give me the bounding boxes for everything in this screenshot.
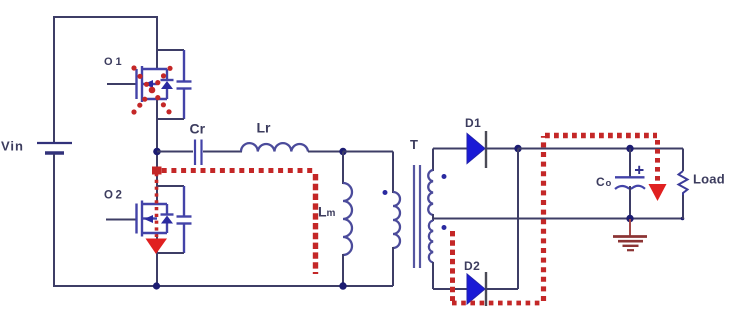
Q2 mid stub <box>141 217 157 219</box>
wire mid node to Q2 drain <box>156 151 158 205</box>
wire mid node to Cr <box>157 151 193 153</box>
wire Co top lead <box>629 149 631 178</box>
Q2 source stub <box>141 232 167 234</box>
wire bottom rail <box>53 285 393 287</box>
battery Vin <box>37 143 72 153</box>
node mid half-bridge <box>153 148 161 156</box>
Co top plate <box>615 176 645 178</box>
Co curved plate <box>615 186 645 189</box>
node D1 output <box>514 145 521 152</box>
transistor Q1 <box>104 50 192 119</box>
wire rectifier vertical D2 to D1 <box>517 149 519 290</box>
Q1 snubber cap C1 <box>177 80 192 82</box>
node Lm top <box>339 148 346 155</box>
Q1 gate plate <box>135 69 137 99</box>
svg-text:o: o <box>606 178 612 189</box>
svg-text:D1: D1 <box>465 116 481 130</box>
ground <box>613 219 647 250</box>
inductor Lr <box>241 143 308 151</box>
diode D2 <box>467 272 486 306</box>
red dotted path big loop right vertical <box>655 140 660 184</box>
svg-text:Load: Load <box>693 172 725 187</box>
Q1 mid stub <box>141 83 157 85</box>
wire Lm branch upper <box>342 152 344 185</box>
red dotted path big loop top horizontal <box>545 133 657 138</box>
wire Co bottom lead <box>629 186 631 219</box>
Q2 body arrow <box>144 215 153 223</box>
primary polarity dot <box>383 190 388 195</box>
svg-text:O2: O2 <box>104 190 124 202</box>
red dotted path big loop left vertical <box>541 136 546 301</box>
wire Q1 source to mid node <box>156 98 158 152</box>
secondary polarity dot lower <box>442 225 447 230</box>
node Lm bottom <box>339 282 346 289</box>
Q2 channel <box>141 201 143 237</box>
wire output top rail <box>518 148 683 150</box>
wire center tap rail <box>433 218 683 220</box>
svg-text:Lr: Lr <box>257 120 272 136</box>
wire secondary top lead <box>432 149 434 172</box>
secondary center tap <box>432 214 434 221</box>
svg-text:Vin: Vin <box>1 139 24 154</box>
secondary winding upper <box>428 170 433 215</box>
svg-text:D2: D2 <box>464 259 480 273</box>
diode D1 <box>467 131 486 168</box>
inductor Lm <box>343 183 352 255</box>
secondary polarity dot upper <box>442 174 447 179</box>
Q2 snubber cap C2 <box>177 215 192 217</box>
wire primary top lead <box>392 152 394 194</box>
transformer T <box>383 137 447 289</box>
wire left rail lower <box>53 154 55 287</box>
wire Q2 source to bottom rail <box>156 232 158 286</box>
wire Lm branch lower <box>342 254 344 286</box>
red dotted path through Q2 <box>155 173 159 237</box>
red arrow Q2 current <box>146 239 168 255</box>
transistor Q2 <box>104 186 192 253</box>
wire secondary bottom lead <box>432 262 434 289</box>
wire D2 cathode <box>485 288 518 290</box>
node Co bottom <box>626 215 633 222</box>
node Q2 source / bottom rail <box>153 282 160 289</box>
Q2 snubber loop <box>157 185 184 187</box>
red dotted path primary loop vertical <box>313 174 318 274</box>
Q1 channel <box>141 66 143 102</box>
wire D1 cathode to node <box>485 148 518 150</box>
Q2 body diode <box>166 204 168 215</box>
svg-text:C: C <box>596 175 605 189</box>
wire half-bridge vertical drain Q1 <box>156 16 158 70</box>
red dotted path secondary bottom horizontal <box>452 301 542 306</box>
red dotted path secondary left vertical <box>450 231 455 301</box>
transformer core <box>413 165 415 268</box>
red arrow output current <box>649 184 667 201</box>
primary winding <box>393 192 400 248</box>
wire Lm node to primary <box>343 151 393 153</box>
Q1 drain stub <box>141 68 167 70</box>
svg-text:Cr: Cr <box>190 121 206 137</box>
wire secondary bottom to D2 <box>433 288 467 290</box>
Co plus sign <box>635 166 644 174</box>
secondary winding lower <box>429 221 433 263</box>
red X marks over Q1 <box>131 65 172 114</box>
red dotted path primary loop start blob <box>152 167 162 175</box>
wire top rail <box>54 16 158 18</box>
Q1 source stub <box>141 98 167 100</box>
Q2 drain stub <box>141 203 167 205</box>
node Load bottom <box>681 217 685 221</box>
svg-text:T: T <box>410 137 418 152</box>
wire secondary top to D1 <box>433 148 467 150</box>
wire Cr to Lr <box>203 151 242 153</box>
svg-text:O1: O1 <box>104 56 125 68</box>
resistor Load <box>679 149 725 220</box>
node Co top <box>626 145 633 152</box>
svg-text:m: m <box>327 208 336 219</box>
wire Lr to Lm node <box>308 151 343 153</box>
Q1 body diode <box>166 69 168 80</box>
capacitor Cr <box>195 140 202 166</box>
red dotted path primary loop horizontal <box>152 168 316 173</box>
capacitor Co <box>596 145 645 222</box>
Q2 gate lead <box>106 219 136 221</box>
wire left rail upper <box>53 16 55 142</box>
Q1 gate lead <box>107 83 136 85</box>
Q2 gate plate <box>135 204 137 234</box>
Q1 body arrow <box>144 80 153 88</box>
Q1 snubber loop <box>157 49 184 51</box>
wire primary bottom lead <box>392 247 394 286</box>
